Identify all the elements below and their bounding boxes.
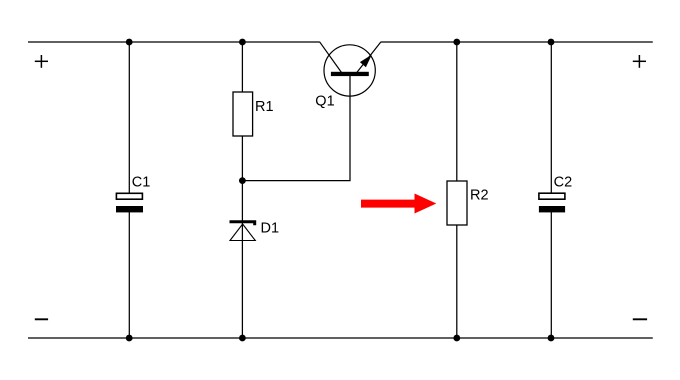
wire top rail right xyxy=(381,41,653,43)
minus terminal right xyxy=(633,318,647,320)
wire C1 branch bottom xyxy=(128,212,130,338)
wire C1 branch top xyxy=(128,42,130,194)
capacitor C1 xyxy=(116,193,143,212)
junction top R2 xyxy=(453,39,460,46)
plus terminal left xyxy=(35,55,48,68)
svg-text:R2: R2 xyxy=(470,188,489,204)
junction bottom C1 xyxy=(126,335,133,342)
wire top rail left xyxy=(28,41,320,43)
junction top C1 xyxy=(126,39,133,46)
svg-text:R1: R1 xyxy=(255,99,274,115)
transistor Q1 xyxy=(320,42,382,96)
wire C2 branch top xyxy=(550,42,552,194)
diode D1 zener xyxy=(230,222,256,241)
junction bottom C2 xyxy=(548,335,555,342)
wire Q1 base to node xyxy=(242,76,350,181)
svg-text:Q1: Q1 xyxy=(315,93,334,109)
wire R1 D1 branch xyxy=(241,42,243,338)
minus terminal left xyxy=(35,318,48,320)
wire bottom rail xyxy=(28,337,653,339)
junction node base xyxy=(239,177,246,184)
red arrow load current indicator xyxy=(361,194,436,214)
plus terminal right xyxy=(633,55,646,68)
resistor R1 xyxy=(233,92,253,136)
resistor R2 xyxy=(447,181,467,225)
svg-text:C2: C2 xyxy=(554,174,573,190)
wire R2 branch xyxy=(456,42,458,338)
svg-text:C1: C1 xyxy=(132,174,151,190)
junction bottom D1 xyxy=(239,335,246,342)
junction top C2 xyxy=(548,39,555,46)
wire C2 branch bottom xyxy=(550,212,552,338)
junction bottom R2 xyxy=(453,335,460,342)
junction top R1 xyxy=(239,39,246,46)
svg-text:D1: D1 xyxy=(261,220,280,236)
capacitor C2 xyxy=(539,193,565,212)
